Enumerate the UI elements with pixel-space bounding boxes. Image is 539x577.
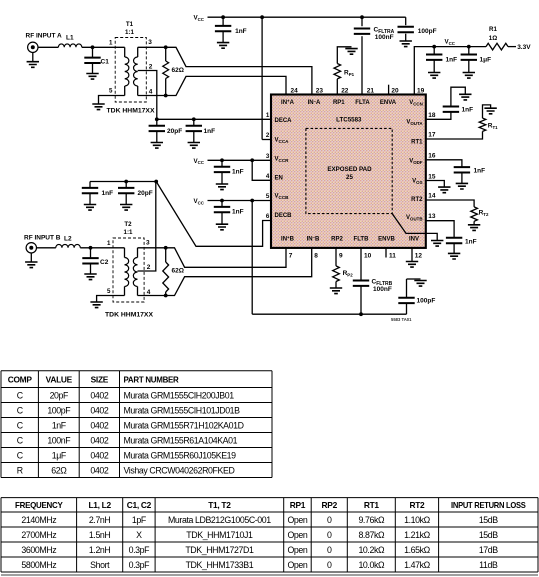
- resistor RP1: [334, 64, 341, 79]
- svg-text:3600MHz: 3600MHz: [21, 545, 56, 555]
- node junction out 1uF: [467, 45, 471, 49]
- svg-text:20pF: 20pF: [167, 128, 182, 135]
- svg-text:RP1: RP1: [344, 70, 355, 77]
- svg-text:Open: Open: [287, 560, 307, 570]
- node junction top rail VCCA drop: [260, 15, 264, 19]
- svg-text:1nF: 1nF: [232, 169, 244, 176]
- svg-text:RP1: RP1: [290, 500, 306, 510]
- svg-text:3: 3: [148, 39, 152, 46]
- node junction 20pF B: [124, 180, 128, 184]
- svg-text:5: 5: [107, 288, 111, 295]
- node junction B rail drop: [250, 199, 254, 203]
- svg-text:INPUT RETURN LOSS: INPUT RETURN LOSS: [451, 500, 526, 510]
- svg-text:11dB: 11dB: [479, 560, 498, 570]
- svg-text:L1, L2: L1, L2: [88, 500, 111, 510]
- svg-text:62Ω: 62Ω: [51, 465, 67, 475]
- svg-text:2700MHz: 2700MHz: [21, 530, 56, 540]
- ground for top 1nF: [217, 43, 229, 49]
- svg-text:4: 4: [266, 173, 270, 180]
- svg-text:9: 9: [339, 253, 343, 260]
- wire RP2 to ground: [335, 282, 337, 289]
- svg-text:1.47kΩ: 1.47kΩ: [404, 560, 431, 570]
- svg-text:FLTB: FLTB: [354, 237, 370, 243]
- svg-text:R: R: [17, 465, 23, 475]
- svg-text:T2: T2: [124, 221, 132, 228]
- svg-text:7: 7: [289, 253, 293, 260]
- wire VCCA vertical drop to pin 2: [261, 17, 263, 139]
- svg-text:25: 25: [346, 174, 353, 181]
- node junction top rail 1nF: [221, 15, 225, 19]
- svg-text:1nF: 1nF: [462, 107, 474, 114]
- wire top VCC rail: [208, 16, 406, 18]
- resistor RT2: [471, 207, 478, 221]
- svg-text:Open: Open: [287, 530, 307, 540]
- svg-text:VCCA: VCCA: [275, 138, 290, 144]
- svg-text:T1: T1: [126, 21, 134, 28]
- svg-text:VCC: VCC: [194, 198, 205, 205]
- svg-text:5583 TA01: 5583 TA01: [391, 317, 412, 322]
- resistor RT1: [479, 118, 486, 131]
- svg-text:15: 15: [428, 173, 436, 180]
- svg-text:8.87kΩ: 8.87kΩ: [358, 530, 385, 540]
- svg-text:1.65kΩ: 1.65kΩ: [404, 545, 431, 555]
- wire bottom VCC rail: [252, 313, 406, 315]
- svg-text:1:1: 1:1: [125, 29, 135, 36]
- svg-text:1μF: 1μF: [52, 450, 67, 460]
- capacitor 1uF out: [468, 47, 470, 55]
- wire EN elbow to pin 4: [252, 160, 271, 180]
- svg-text:SIZE: SIZE: [91, 374, 109, 384]
- svg-text:ENVB: ENVB: [378, 237, 395, 243]
- svg-text:100nF: 100nF: [375, 34, 394, 41]
- wire IN+B signal to pin 7: [166, 248, 286, 267]
- svg-text:Open: Open: [287, 545, 307, 555]
- capacitor CFLTRB 100nF in series FLTB pin 10: [360, 248, 362, 280]
- wire VCCN pin 19 to rail: [414, 47, 486, 95]
- ground for RT2: [468, 225, 480, 231]
- svg-text:1.10kΩ: 1.10kΩ: [404, 515, 431, 525]
- svg-text:TDK HHM17XX: TDK HHM17XX: [105, 312, 153, 319]
- svg-text:L1: L1: [66, 35, 74, 42]
- node junction VCCB 1nF: [220, 199, 224, 203]
- svg-text:VOS: VOS: [412, 179, 422, 185]
- svg-text:8: 8: [314, 253, 318, 260]
- wire RF B to L2: [37, 247, 56, 249]
- svg-text:VALUE: VALUE: [46, 374, 73, 384]
- svg-text:VCC: VCC: [194, 15, 205, 22]
- capacitor 1nF A deca: [193, 119, 195, 126]
- ground for RP2: [330, 288, 342, 294]
- svg-text:15dB: 15dB: [479, 530, 498, 540]
- svg-text:C1, C2: C1, C2: [127, 500, 152, 510]
- svg-text:1μF: 1μF: [480, 57, 492, 64]
- wire VOUTB pin 13 to 1nF: [426, 221, 454, 238]
- svg-text:C: C: [17, 435, 24, 445]
- ground for 1nF VODF: [456, 183, 468, 189]
- svg-text:DECA: DECA: [275, 118, 293, 124]
- node junction EN branch: [250, 158, 254, 162]
- svg-text:0402: 0402: [90, 435, 108, 445]
- svg-text:3.3V: 3.3V: [517, 44, 531, 51]
- svg-text:100nF: 100nF: [47, 435, 71, 445]
- svg-text:1nF: 1nF: [474, 168, 486, 175]
- svg-text:2: 2: [266, 132, 270, 139]
- svg-text:1: 1: [266, 112, 270, 119]
- T2 secondary winding: [137, 248, 139, 258]
- transformer T2 dashed box: [113, 238, 144, 302]
- svg-text:RT1: RT1: [411, 140, 423, 146]
- node junction DECB tap: [154, 180, 158, 184]
- ground for 20pF A: [151, 143, 163, 149]
- ground for 1nF A deca: [188, 143, 200, 149]
- node junction 1nF A deca: [192, 117, 196, 121]
- svg-text:PART NUMBER: PART NUMBER: [124, 374, 179, 384]
- svg-text:2: 2: [147, 264, 151, 271]
- svg-text:RT1: RT1: [488, 123, 498, 130]
- svg-text:6: 6: [266, 213, 270, 220]
- svg-text:C: C: [17, 390, 24, 400]
- ground for 20pF B: [120, 205, 132, 211]
- node junction bottom rail CFLTRB: [359, 312, 363, 316]
- node junction VCCR 1nF: [220, 158, 224, 162]
- svg-text:2140MHz: 2140MHz: [21, 515, 56, 525]
- svg-text:FREQUENCY: FREQUENCY: [15, 500, 63, 510]
- svg-text:5800MHz: 5800MHz: [21, 560, 56, 570]
- wire T2 secondary bottom lead: [138, 295, 166, 297]
- svg-text:DECB: DECB: [275, 213, 293, 219]
- RF INPUT A connector: [28, 42, 38, 52]
- svg-text:0: 0: [327, 515, 332, 525]
- svg-text:0402: 0402: [90, 405, 108, 415]
- svg-text:VCC: VCC: [194, 158, 205, 165]
- wire T1 secondary top lead: [138, 46, 166, 48]
- svg-text:Open: Open: [287, 515, 307, 525]
- capacitor 20pF A: [156, 119, 158, 126]
- svg-text:11: 11: [389, 253, 396, 260]
- svg-text:1pF: 1pF: [132, 515, 147, 525]
- svg-text:9.76kΩ: 9.76kΩ: [358, 515, 385, 525]
- node junction T1 bottom: [164, 94, 168, 98]
- capacitor 1nF VCCB: [221, 201, 223, 208]
- wire DECB decouple rail: [90, 181, 156, 183]
- node junction top rail CFLTRA: [360, 15, 364, 19]
- svg-text:L2: L2: [64, 235, 72, 242]
- svg-text:20: 20: [391, 88, 399, 95]
- wire RT1 pin 17: [426, 131, 483, 139]
- svg-text:VCCR: VCCR: [275, 157, 290, 163]
- resistor 62ohm B: [165, 248, 167, 262]
- wire VOS pin 15 to ground: [426, 181, 445, 188]
- svg-text:62Ω: 62Ω: [172, 268, 184, 275]
- svg-text:VCCB: VCCB: [275, 194, 290, 200]
- transformer T1 dashed box: [115, 38, 146, 103]
- svg-text:14: 14: [428, 192, 436, 199]
- T2 primary winding: [124, 248, 126, 258]
- node junction T2 top: [164, 246, 168, 250]
- ground for 1nF VCCB: [216, 224, 228, 230]
- ground for T2 pin 5: [90, 302, 102, 308]
- svg-text:TDK_HHM1710J1: TDK_HHM1710J1: [186, 530, 253, 540]
- capacitor 1nF VOUTB: [446, 238, 462, 243]
- svg-text:5: 5: [109, 88, 113, 95]
- svg-text:100nF: 100nF: [373, 286, 392, 293]
- svg-text:1Ω: 1Ω: [489, 35, 497, 42]
- svg-text:COMP: COMP: [8, 374, 33, 384]
- svg-text:22: 22: [341, 88, 349, 95]
- ground for C1: [86, 74, 98, 80]
- svg-text:1: 1: [109, 40, 113, 47]
- wire VOUTA pin 18 to 1nF: [426, 112, 451, 119]
- T1 primary winding: [124, 47, 126, 57]
- capacitor 1nF top left: [222, 17, 224, 26]
- svg-text:VCC: VCC: [445, 39, 456, 46]
- ground for 1nF B: [84, 205, 96, 211]
- ground for INV: [406, 262, 418, 268]
- svg-text:24: 24: [291, 88, 299, 95]
- capacitor 1nF VODF: [454, 167, 470, 172]
- capacitor 1nF VOUTA: [443, 107, 459, 112]
- svg-text:0.3pF: 0.3pF: [129, 545, 151, 555]
- svg-text:0402: 0402: [90, 465, 108, 475]
- svg-text:1nF: 1nF: [446, 57, 458, 64]
- svg-text:13: 13: [428, 213, 436, 220]
- wire RP1 pin 22 stub: [336, 79, 338, 95]
- svg-text:4: 4: [149, 89, 153, 96]
- node junction T1 top: [164, 45, 168, 49]
- capacitor C2: [90, 248, 92, 259]
- wire T2 pin5 to ground: [97, 296, 125, 303]
- ground for 1nF VOUTA: [459, 94, 471, 100]
- svg-text:10.0kΩ: 10.0kΩ: [358, 560, 385, 570]
- svg-text:0402: 0402: [90, 390, 108, 400]
- wire T2 center tap: [138, 182, 156, 272]
- exposed pad ground: [431, 241, 443, 247]
- wire IN-A signal to pin 23: [166, 47, 312, 94]
- svg-text:20pF: 20pF: [138, 190, 153, 197]
- svg-text:VCCN: VCCN: [409, 100, 423, 106]
- ground for C2: [84, 274, 96, 280]
- svg-text:5: 5: [266, 193, 270, 200]
- node junction C1: [91, 45, 95, 49]
- svg-text:TDK_HHM1733B1: TDK_HHM1733B1: [186, 560, 254, 570]
- svg-text:RP1: RP1: [333, 100, 345, 106]
- wire T1 pin5 to ground: [99, 96, 125, 105]
- wire DECB diagonal to pin 6: [156, 182, 271, 247]
- svg-text:12: 12: [415, 253, 423, 260]
- wire top rail corner to 100pF: [405, 17, 407, 25]
- svg-text:Murata LDB212G1005C-001: Murata LDB212G1005C-001: [168, 515, 271, 525]
- svg-text:VOUTA: VOUTA: [406, 120, 423, 126]
- ground for T1 pin 5: [92, 104, 104, 110]
- svg-text:1nF: 1nF: [52, 420, 67, 430]
- svg-text:1nF: 1nF: [465, 239, 477, 246]
- svg-text:LTC5583: LTC5583: [336, 117, 362, 124]
- svg-text:0.3pF: 0.3pF: [129, 560, 151, 570]
- wire L2 to T2: [80, 247, 124, 249]
- svg-text:Murata GRM1555CIH200JB01: Murata GRM1555CIH200JB01: [124, 390, 235, 400]
- svg-text:1.5nH: 1.5nH: [89, 530, 111, 540]
- svg-text:20pF: 20pF: [50, 390, 69, 400]
- wire VCCR rail: [208, 159, 272, 161]
- wire RP1 top elbow: [337, 47, 351, 64]
- op-amp U1 LTC5583 IC body: [271, 95, 426, 248]
- wire DECA rail: [157, 118, 271, 120]
- svg-text:C: C: [17, 420, 24, 430]
- resistor 62ohm A: [165, 47, 167, 61]
- svg-text:21: 21: [367, 88, 375, 95]
- wire RF A to L1: [38, 46, 58, 48]
- svg-text:TDK_HHM1727D1: TDK_HHM1727D1: [185, 545, 254, 555]
- wire VODF pin 16 to 1nF: [426, 160, 462, 167]
- capacitor 100pF bottom: [406, 303, 408, 315]
- svg-text:ENVA: ENVA: [380, 100, 397, 106]
- svg-text:RT2: RT2: [479, 210, 489, 217]
- wire RT2 to ground: [473, 221, 475, 225]
- svg-text:0: 0: [327, 560, 332, 570]
- ground for 1nF VCCR: [216, 184, 228, 190]
- capacitor C1: [92, 47, 94, 58]
- svg-text:100pF: 100pF: [417, 298, 436, 305]
- ground for RP1: [345, 49, 357, 55]
- svg-text:10: 10: [364, 253, 372, 260]
- svg-text:FLTA: FLTA: [355, 100, 370, 106]
- exposed pad dashed box: [306, 128, 392, 213]
- svg-text:19: 19: [417, 88, 425, 95]
- wire 100pF bottom elbow to ground: [407, 278, 421, 280]
- inductor L2: [56, 244, 80, 247]
- svg-text:Murata GRM155R71H102KA01D: Murata GRM155R71H102KA01D: [124, 420, 244, 430]
- svg-text:C: C: [17, 405, 24, 415]
- svg-text:RT1: RT1: [364, 500, 380, 510]
- wire VCC drop to bottom rail: [251, 201, 253, 315]
- svg-text:Murata GRM155R61A104KA01: Murata GRM155R61A104KA01: [124, 435, 238, 445]
- svg-text:RT2: RT2: [411, 197, 423, 203]
- svg-text:100pF: 100pF: [418, 28, 437, 35]
- svg-text:1nF: 1nF: [204, 128, 216, 135]
- svg-text:10.2kΩ: 10.2kΩ: [358, 545, 385, 555]
- svg-text:2.7nH: 2.7nH: [89, 515, 111, 525]
- node junction C2: [89, 246, 93, 250]
- wire R1 to 3.3V: [508, 46, 516, 48]
- svg-text:RP2: RP2: [343, 270, 354, 277]
- wire RT2 pin 14: [426, 200, 474, 207]
- ground for RF INPUT A connector: [32, 53, 34, 62]
- svg-text:TDK HHM17XX: TDK HHM17XX: [107, 107, 155, 114]
- T1 secondary winding: [137, 47, 139, 57]
- exposed pad ground link diagonal: [392, 214, 437, 241]
- resistor RP2: [333, 266, 340, 282]
- svg-text:17dB: 17dB: [479, 545, 498, 555]
- svg-text:1nF: 1nF: [232, 209, 244, 216]
- svg-text:1nF: 1nF: [102, 190, 114, 197]
- svg-text:INV: INV: [409, 237, 419, 243]
- table 2 frequency options: [1, 370, 272, 372]
- svg-text:0: 0: [327, 530, 332, 540]
- svg-text:0: 0: [327, 545, 332, 555]
- node junction T2 bottom: [164, 294, 168, 298]
- wire RT1 to ground: [483, 105, 491, 118]
- svg-text:18: 18: [428, 112, 436, 119]
- svg-text:1: 1: [107, 240, 111, 247]
- svg-text:VOUTB: VOUTB: [406, 215, 422, 221]
- ground for bottom 100pF: [414, 281, 426, 287]
- svg-text:0402: 0402: [90, 420, 108, 430]
- svg-text:C1: C1: [101, 59, 110, 66]
- capacitor 100pF top: [398, 27, 414, 32]
- ground for top 100pF: [400, 41, 412, 47]
- ground for 1nF out: [428, 73, 440, 79]
- svg-text:VODF: VODF: [409, 159, 423, 165]
- svg-text:EXPOSED PAD: EXPOSED PAD: [327, 166, 372, 173]
- ground for RF INPUT B connector: [30, 253, 32, 262]
- wire T1 center tap: [138, 71, 157, 120]
- svg-text:Short: Short: [90, 560, 110, 570]
- svg-text:23: 23: [316, 88, 324, 95]
- svg-text:100pF: 100pF: [47, 405, 71, 415]
- capacitor 1nF B deca: [89, 182, 91, 189]
- svg-text:2: 2: [149, 64, 153, 71]
- capacitor 1nF VCCR: [221, 160, 223, 167]
- svg-text:1.2nH: 1.2nH: [89, 545, 111, 555]
- svg-text:T1, T2: T1, T2: [208, 500, 231, 510]
- wire ENVB stub pin 11: [385, 248, 387, 258]
- wire RP2 pin 9 stub: [335, 248, 337, 266]
- svg-text:1nF: 1nF: [235, 28, 247, 35]
- svg-text:R1: R1: [489, 26, 497, 33]
- node junction out 1nF: [432, 45, 436, 49]
- svg-text:RF INPUT B: RF INPUT B: [24, 235, 61, 242]
- wire VCCB rail: [208, 200, 272, 202]
- svg-text:17: 17: [428, 132, 436, 139]
- capacitor 1nF out: [433, 47, 435, 55]
- svg-text:RP2: RP2: [322, 500, 338, 510]
- svg-text:RT2: RT2: [409, 500, 425, 510]
- svg-text:C: C: [17, 450, 24, 460]
- wire T1 secondary bottom lead: [138, 95, 166, 97]
- svg-text:RF INPUT A: RF INPUT A: [26, 33, 63, 40]
- svg-text:RP2: RP2: [331, 237, 343, 243]
- svg-text:1.21kΩ: 1.21kΩ: [404, 530, 431, 540]
- wire ENVA stub pin 20: [388, 85, 390, 95]
- svg-text:0402: 0402: [90, 450, 108, 460]
- svg-text:3: 3: [146, 240, 150, 247]
- wire L1 to T1: [82, 46, 125, 48]
- svg-text:62Ω: 62Ω: [172, 67, 184, 74]
- wire IN-B signal to pin 8: [166, 248, 312, 296]
- svg-text:EN: EN: [275, 175, 283, 181]
- svg-text:Vishay CRCW040262R0FKED: Vishay CRCW040262R0FKED: [124, 465, 235, 475]
- ground for 1nF VOUTB: [448, 253, 460, 259]
- capacitor CFLTRA 100nF in series to FLTA pin 21: [361, 17, 363, 26]
- svg-text:1:1: 1:1: [124, 229, 134, 236]
- svg-text:15dB: 15dB: [479, 515, 498, 525]
- svg-text:16: 16: [428, 152, 436, 159]
- wire T2 secondary top lead: [138, 247, 166, 249]
- svg-text:3: 3: [266, 153, 270, 160]
- wire IN+A signal to pin 24: [166, 76, 286, 95]
- resistor R1 1ohm: [486, 43, 508, 50]
- wire INV pin 12 to ground: [411, 248, 413, 262]
- ground for 1uF: [463, 73, 475, 79]
- RF INPUT B connector: [26, 243, 36, 253]
- inductor L1: [58, 44, 81, 47]
- svg-text:Murata GRM1555CIH101JD01B: Murata GRM1555CIH101JD01B: [124, 405, 241, 415]
- ground for RT1: [484, 108, 496, 114]
- capacitor 20pF B: [125, 182, 127, 189]
- node junction 20pF A: [155, 117, 159, 121]
- svg-text:C2: C2: [100, 259, 109, 266]
- svg-text:Murata GRM155R60J105KE19: Murata GRM155R60J105KE19: [124, 450, 237, 460]
